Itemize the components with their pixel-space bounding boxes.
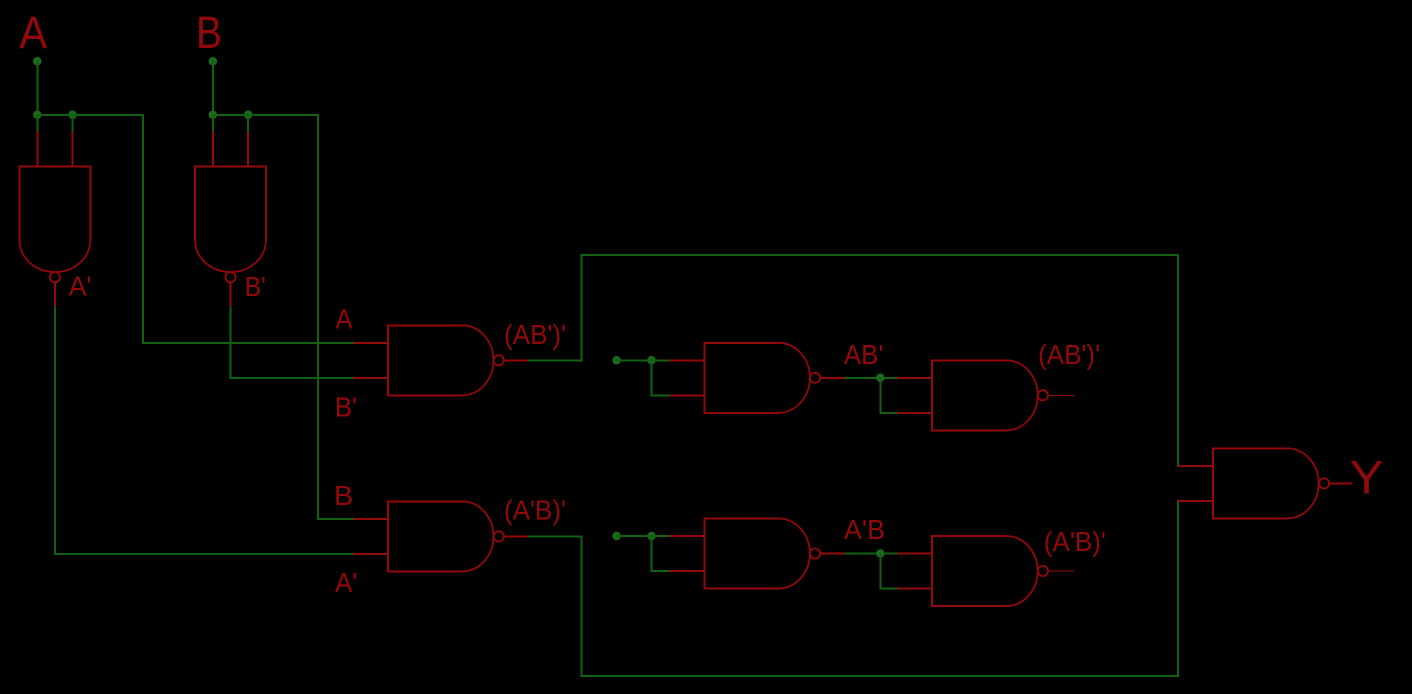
NAND U8 input pins [897,553,932,555]
svg-text:B: B [196,7,222,58]
wire B' from U2 to U3 [230,307,232,378]
svg-text:A'B: A'B [844,514,885,545]
NAND U7 body [704,518,779,520]
NAND U7 output pin [820,553,845,555]
svg-text:(A'B)': (A'B)' [1044,526,1106,557]
wire S2 leg down [651,536,653,571]
wire T1-T2 [617,359,652,361]
svg-text:A: A [19,7,47,58]
svg-text:(A'B)': (A'B)' [504,495,566,526]
NAND U3 output bubble [494,355,504,365]
wire S2 to U7 top [652,535,670,537]
NAND U6 output bubble [1038,390,1048,400]
wire AB' leg down [879,378,881,413]
wire A pin to junction [36,61,38,115]
NAND U5 body [388,500,463,502]
wire T2 leg down [651,360,653,395]
junction T2 [647,356,656,365]
wire bottom bus up to U9 [1177,501,1179,676]
NAND U3 input pins [353,342,388,344]
NAND U2 body [195,166,266,168]
NAND U6 body [932,359,1007,361]
NAND U1 output bubble [50,272,60,282]
NAND U9 output bubble [1319,478,1329,488]
NAND U5 output pin [504,535,529,537]
NAND U7 output bubble [810,548,820,558]
NAND U3 output pin [504,359,529,361]
NAND U7 input pins [669,535,704,537]
junction B1 [209,111,218,120]
NAND U9 body [1213,447,1288,449]
wire (AB')' to top bus [529,359,582,361]
wire B pin to junction [212,61,214,115]
wire T2 to U4 top [652,359,670,361]
junction A1 [33,111,42,120]
NAND U8 body [932,535,1007,537]
svg-text:A': A' [335,567,357,598]
wire AB' to U6 [846,377,898,379]
svg-text:A: A [335,303,352,334]
junction A2 [68,111,77,120]
NAND U6 output pin [1048,394,1074,396]
NAND U1 input pins [36,132,38,167]
wire top bus horizontal [582,254,1179,256]
junction B2 [244,111,253,120]
junction AB' [876,374,885,383]
junction S1 [612,532,621,541]
wire S1-S2 [617,535,652,537]
wire B drop to U5 [317,115,319,519]
svg-text:B': B' [335,391,357,422]
NAND U8 output pin [1048,570,1074,572]
svg-text:B': B' [245,271,266,302]
NAND U4 output pin [820,377,845,379]
junction A'B [876,549,885,558]
NAND U2 input pins [212,132,214,167]
wire A horizontal [37,114,143,116]
svg-text:AB': AB' [844,339,884,370]
pin dot A [33,57,42,66]
wire B junction legs [212,115,214,132]
wire bottom bus horizontal [582,675,1179,677]
junction S2 [647,532,656,541]
wire top bus down to U9 [1177,255,1179,466]
svg-text:B: B [334,480,353,511]
wire A'B to U8 [846,553,898,555]
NAND U2 output pin [230,282,232,307]
wire A'B leg down [879,554,881,589]
NAND U5 input pins [353,518,388,520]
NAND U6 input pins [897,377,932,379]
NAND U2 output bubble [225,272,235,282]
NAND U3 body [388,324,463,326]
NAND U5 output bubble [494,531,504,541]
NAND U4 body [704,342,779,344]
svg-text:(AB')': (AB')' [504,319,566,350]
svg-text:Y: Y [1350,452,1384,505]
NAND U8 output bubble [1038,566,1048,576]
wire B horizontal [213,114,318,116]
NAND U1 output pin [54,282,56,307]
NAND U1 body [20,166,91,168]
wire A' from U1 to U5 [54,307,56,554]
NAND U4 input pins [669,359,704,361]
pin dot B [209,57,218,66]
wire (A'B)' to bottom bus [529,535,582,537]
NAND U4 output bubble [810,373,820,383]
junction T1 [612,356,621,365]
svg-text:A': A' [69,270,92,301]
wire A junction legs [36,115,38,132]
NAND U9 output pin [1329,482,1352,484]
wire A drop to U3 [142,115,144,343]
svg-text:(AB')': (AB')' [1038,339,1100,370]
NAND U9 input pins [1178,465,1213,467]
